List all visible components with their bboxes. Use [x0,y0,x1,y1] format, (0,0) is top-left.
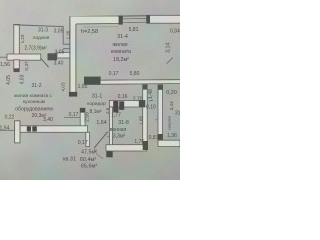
window lines [123,18,147,22]
wc left wall bottom cap [158,134,163,140]
wall line to left edge at 1,54 [0,129,14,131]
bathroom 31-8 top wall band [109,100,145,107]
bathroom bottom band left cap [143,141,148,150]
room 31-4 bottom wall lines [101,80,180,85]
white wall segment to house corner [57,52,70,58]
top-right wall band [147,15,181,23]
vent duct block 1 [113,101,118,112]
bathroom left wall / door jamb [109,107,112,145]
loggia 31-3 left wall [14,24,19,55]
room 31-4 top outer wall line [70,15,180,16]
scan paper background [0,0,180,180]
room 31-4 top wall faint lower line [83,26,118,28]
corridor left wall [80,108,85,130]
wc bottom wall band [158,140,180,146]
entry door swing arc [94,148,103,159]
bathroom top band right cap [139,100,145,107]
jamb bottom cap [106,145,112,158]
stove vent block 1 [27,126,31,131]
room 31-4 bottom wall black segment [84,77,101,85]
room 31-4 left wall inner line [75,24,77,92]
wc left wall [158,85,163,140]
corridor left wall top cap [80,108,85,112]
bathroom right wall top dark [143,85,148,90]
wc left wall top dark [158,85,163,90]
balcony door leaf [41,58,49,67]
left wall bottom cap [69,92,77,97]
room 31-4 bottom wall core [101,80,180,83]
room 31-4 top wall band [70,16,119,24]
room 31-2 bottom wall band [20,126,88,133]
wc wall tick [155,119,158,121]
room 31-4 top wall inner line [76,22,119,25]
dark wall segment right of balcony door [48,53,58,60]
room 31-4 left wall core [70,17,76,92]
top-right band left dark cap [147,15,150,23]
bathroom bottom wall band [106,145,147,151]
entry door leaf [94,132,107,148]
bathroom right wall [143,85,148,147]
loggia 31-3 right wall [62,26,64,44]
left pier bottom cap [14,68,19,72]
wall step loggia to house [63,44,70,49]
loggia 31-3 top wall [14,25,64,27]
wall return right of bottom band [86,132,90,146]
external wall band under loggia [7,54,41,60]
left pier below band [14,60,19,72]
wall line to left edge [0,56,7,58]
left pier crossing bottom band [15,121,20,143]
top wall dark cap [119,16,123,25]
dimension line left of corridor wall [64,116,80,118]
dim tick below 3,14 [167,58,173,64]
room 31-4 left wall outer line [69,16,71,96]
dim tick under 1,48 [150,99,153,102]
stove vent block 2 [32,126,37,131]
vent duct block 2 [119,101,124,110]
